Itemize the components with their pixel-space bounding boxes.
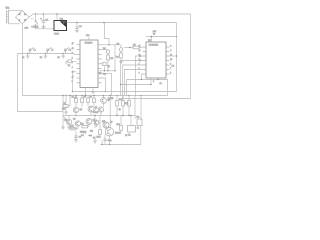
- cluster top rail junctions: [62, 95, 64, 97]
- wire regulator input stub: [56, 14, 58, 21]
- ground: [98, 73, 102, 75]
- connector box M1: [135, 95, 142, 126]
- svg-text:2: 2: [72, 57, 73, 59]
- capacitor C3: [75, 23, 82, 31]
- wire osc ground bus: [100, 70, 116, 72]
- svg-text:BC547: BC547: [93, 112, 99, 114]
- resistor R1: [66, 60, 77, 67]
- svg-text:1k: 1k: [119, 109, 121, 111]
- svg-text:C7: C7: [125, 135, 127, 137]
- IC3 counter: [146, 40, 166, 78]
- wire outer bottom rail: [123, 98, 191, 100]
- LED D2: [102, 48, 110, 55]
- resistor R13: [70, 126, 76, 130]
- ground: [91, 92, 95, 94]
- ground: [93, 141, 97, 143]
- ground: [26, 56, 30, 58]
- transistor Q4: [98, 107, 103, 112]
- svg-text:S3: S3: [57, 57, 59, 59]
- IC1 microcontroller: [80, 35, 98, 88]
- wire IC3 vdd stub: [150, 37, 152, 43]
- svg-text:4k7: 4k7: [74, 98, 77, 100]
- svg-text:7805: 7805: [54, 34, 60, 36]
- wire IC3 staircase 3: [123, 65, 143, 99]
- svg-text:18: 18: [72, 48, 74, 50]
- svg-text:CD4017BE: CD4017BE: [149, 45, 159, 47]
- svg-text:8: 8: [170, 46, 171, 48]
- ground: [44, 56, 48, 58]
- svg-text:R1: R1: [68, 65, 70, 67]
- resistor R11: [122, 95, 130, 110]
- resistor R3: [107, 55, 114, 71]
- resistor R16: [117, 116, 123, 133]
- wire +5V branch down: [105, 23, 110, 45]
- resistor R9b: [93, 96, 96, 107]
- resistor R7: [72, 96, 78, 108]
- svg-text:5: 5: [72, 81, 73, 83]
- diode D5: [88, 134, 92, 136]
- wire +5V right vertical: [176, 23, 178, 92]
- wire q9 emitter: [109, 136, 111, 145]
- IC1 pin numbers: [72, 43, 74, 83]
- transformer TR1: [5, 7, 10, 23]
- IC3 right pins: [166, 47, 170, 74]
- junction: [35, 13, 37, 15]
- resistor R9: [87, 96, 92, 107]
- junction: [109, 144, 110, 145]
- wire q10 stub: [96, 125, 98, 127]
- wire IC1 ground stub: [85, 88, 87, 96]
- ground: [75, 30, 79, 32]
- wire IC3 staircase 5: [142, 74, 143, 80]
- wire transformer bottom lead: [8, 23, 19, 25]
- wire IC1 stub2: [92, 88, 94, 92]
- junction: [103, 22, 105, 24]
- capacitor C1: [40, 14, 49, 26]
- wire IC3 bottom stubs: [150, 78, 152, 85]
- resistor R8: [81, 96, 86, 108]
- capacitor C6: [74, 132, 81, 140]
- transistor Q10: [94, 120, 99, 125]
- svg-text:13: 13: [160, 83, 162, 85]
- wire IC3 vdd line: [146, 36, 177, 38]
- ground: [61, 127, 65, 129]
- connector box X2: [128, 126, 136, 137]
- wire cluster mid row: [63, 115, 136, 117]
- resistor R4: [116, 53, 122, 62]
- wire cluster verticals: [65, 95, 67, 103]
- wire Q3 feed: [103, 96, 105, 98]
- wire R1 drop: [71, 72, 73, 92]
- svg-text:Q8: Q8: [110, 122, 112, 124]
- transistor Q7: [86, 119, 96, 125]
- svg-text:16: 16: [170, 59, 172, 61]
- svg-text:R8: R8: [84, 97, 86, 99]
- wire bundle 5 down: [126, 80, 128, 96]
- ground: [61, 56, 65, 58]
- wire bus drop: [99, 71, 101, 73]
- svg-text:D5: D5: [93, 138, 95, 140]
- resistor R15: [99, 127, 102, 137]
- wire bottom rail: [101, 144, 141, 146]
- junction: [76, 22, 78, 24]
- wire raw rail right vertical: [190, 14, 192, 99]
- transistor Q6: [75, 121, 80, 126]
- svg-text:4: 4: [139, 73, 140, 75]
- pushbutton S3: [57, 47, 71, 58]
- svg-text:PIC16F8: PIC16F8: [85, 42, 92, 44]
- ground: [119, 62, 123, 64]
- svg-text:15: 15: [72, 72, 74, 74]
- svg-text:47k: 47k: [81, 124, 84, 126]
- svg-text:16: 16: [72, 76, 74, 78]
- transistor Q1: [73, 107, 83, 112]
- svg-text:Q6: Q6: [73, 119, 75, 121]
- wire IC3 staircase 4: [125, 70, 143, 96]
- svg-text:S1: S1: [22, 57, 24, 59]
- transistor Q3: [101, 98, 110, 104]
- resistor R6: [63, 96, 70, 108]
- capacitor C5: [103, 135, 111, 145]
- svg-text:100n: 100n: [97, 137, 101, 139]
- wire under-IC3 bus: [121, 84, 152, 86]
- resistor R14: [82, 125, 88, 128]
- wire IC1 pin to bus: [102, 73, 112, 95]
- switch S1 POWER: [32, 14, 39, 29]
- svg-text:BC557: BC557: [108, 98, 114, 100]
- wire IC3 staircase 1: [136, 56, 143, 96]
- svg-text:C6: C6: [79, 137, 81, 139]
- wire transformer top lead: [8, 9, 22, 11]
- svg-text:S2: S2: [40, 57, 42, 59]
- bridge rectifier B1: [16, 11, 35, 24]
- svg-text:AC2: AC2: [25, 27, 29, 30]
- wire +5V rail: [67, 22, 177, 24]
- voltage regulator IC2 7805: [54, 18, 67, 35]
- svg-text:1N4148: 1N4148: [80, 132, 86, 134]
- svg-text:9: 9: [170, 50, 171, 52]
- ground: [42, 26, 46, 28]
- transistor Q5: [64, 119, 72, 124]
- svg-text:1: 1: [72, 53, 73, 55]
- junction: [108, 44, 109, 45]
- transistor Q9: [105, 128, 120, 136]
- svg-text:R6: R6: [64, 103, 66, 105]
- svg-text:4: 4: [72, 67, 73, 69]
- ground: [64, 112, 68, 114]
- LED D3: [115, 43, 123, 53]
- svg-text:BD139: BD139: [115, 132, 121, 134]
- svg-text:R16: R16: [117, 124, 120, 126]
- pushbutton S1: [22, 47, 36, 58]
- IC1 left pins: [77, 45, 81, 83]
- wire mid rail: [73, 91, 177, 93]
- transistor Q8: [103, 122, 109, 128]
- pushbutton S2: [40, 47, 54, 58]
- wire diagonal: [64, 117, 70, 123]
- wire IC3 pin16 to +5V: [170, 55, 177, 57]
- resistor R5: [124, 44, 143, 48]
- junction: [176, 36, 178, 38]
- wire diagonal: [93, 109, 97, 113]
- ground: [74, 140, 78, 142]
- wire IC3 staircase 2: [121, 61, 143, 96]
- svg-text:R9: R9: [90, 97, 92, 99]
- resistor R12: [128, 95, 131, 110]
- wire button rail: [18, 53, 77, 56]
- wire IC1 pin 13: [102, 78, 106, 92]
- svg-text:8: 8: [153, 81, 154, 83]
- svg-text:13: 13: [139, 50, 141, 52]
- svg-text:16: 16: [153, 34, 155, 36]
- wire Q9 collector: [109, 96, 111, 128]
- svg-text:7: 7: [170, 68, 171, 70]
- wire switch to regulator input: [36, 28, 55, 30]
- wire X2 feed: [130, 116, 132, 126]
- resistor R10: [116, 95, 124, 110]
- transistor Q2: [88, 106, 98, 112]
- IC1 right pins: [98, 45, 102, 83]
- svg-text:3: 3: [72, 62, 73, 64]
- svg-text:10k: 10k: [62, 109, 65, 111]
- wire IC1 pin to vertical: [102, 45, 116, 71]
- svg-text:POWER: POWER: [32, 27, 39, 29]
- svg-text:22p: 22p: [103, 74, 106, 76]
- svg-text:2k2: 2k2: [90, 131, 93, 133]
- svg-text:17: 17: [72, 43, 74, 45]
- wire left vertical to bottom: [18, 54, 64, 112]
- IC3 pin numbers: [139, 46, 173, 75]
- wire negative rail from bridge: [23, 24, 168, 96]
- IC3 left pins: [143, 47, 147, 74]
- svg-text:5: 5: [170, 73, 171, 75]
- crystal X1: [102, 62, 111, 71]
- ground: [67, 127, 71, 129]
- input terminal circles: [139, 55, 141, 57]
- wire cluster left vertical: [62, 96, 64, 128]
- wire regulator ground pin: [57, 31, 59, 33]
- wire IC1 lower pin: [72, 71, 76, 73]
- junction: [43, 13, 45, 15]
- diode D4: [81, 131, 86, 137]
- wire raw DC rail top: [29, 14, 190, 17]
- svg-text:14: 14: [139, 46, 141, 48]
